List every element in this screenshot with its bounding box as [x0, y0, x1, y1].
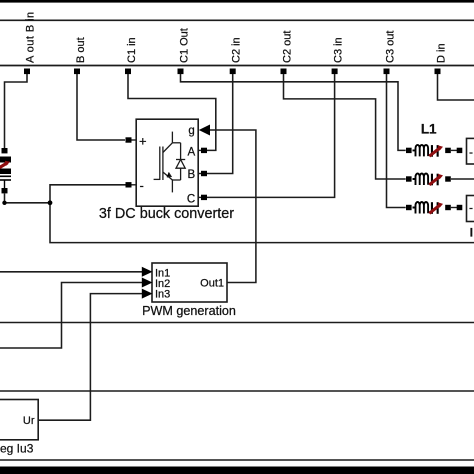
svg-text:Out1: Out1 [200, 278, 224, 290]
bottom black border bar [0, 467, 474, 474]
current measure red arrow row1 [429, 145, 443, 157]
coil row3 [413, 202, 431, 214]
wire long bus line 2 [0, 322, 474, 324]
svg-text:B out: B out [75, 37, 87, 63]
svg-text:C: C [187, 194, 195, 206]
svg-text:-: - [469, 145, 473, 159]
svg-text:PWM generation: PWM generation [142, 304, 236, 318]
svg-text:g: g [188, 125, 194, 137]
wire capacitor branch bottom to junction [5, 194, 51, 203]
coil row2 [413, 174, 431, 186]
block 3f DC buck converter U1 [99, 119, 234, 222]
svg-text:C1 Out: C1 Out [179, 28, 191, 63]
wire In1 from left edge [0, 271, 144, 273]
port square row1 left [406, 148, 412, 153]
port square C2 in [230, 69, 236, 75]
port square C1 in [125, 69, 131, 75]
port square row3 right [457, 205, 463, 210]
diode D1 [176, 143, 185, 180]
In2 arrowhead [142, 278, 153, 288]
inductor L1 row 3 [406, 196, 474, 240]
wire In2 from left edge [0, 283, 144, 349]
svg-text:C3 out: C3 out [385, 31, 397, 63]
port square row2 mid [445, 176, 451, 181]
port square branch bottom [2, 188, 8, 193]
IGBT symbol Q1 [154, 132, 181, 193]
current measure red arrow row2 [429, 174, 443, 186]
capacitor plates [0, 175, 11, 177]
port square C3 out [384, 69, 390, 75]
red measurement arrow [0, 163, 8, 169]
stub B port [198, 173, 201, 175]
wire long bus line 3 [0, 390, 474, 392]
port square row3 left [406, 205, 412, 210]
bottom horizontal line [0, 459, 474, 461]
wire C1 in to A port of buck converter [128, 74, 216, 150]
svg-text:B: B [188, 169, 196, 181]
port square A out B in [24, 69, 30, 75]
port square branch top [2, 148, 8, 153]
wire C1 Out to L1 row 1 [181, 74, 406, 150]
coil row1 [413, 145, 431, 157]
svg-text:In3: In3 [155, 289, 170, 301]
port square C [201, 195, 207, 200]
svg-text:C3 in: C3 in [333, 37, 345, 63]
port square C1 Out [178, 69, 184, 75]
In1 arrowhead [142, 267, 153, 277]
svg-text:A out B in: A out B in [25, 11, 37, 63]
current measure red arrow row3 [429, 202, 443, 214]
meter block row1 [467, 138, 474, 164]
port square minus [126, 182, 132, 187]
port square row1 mid [445, 148, 451, 153]
svg-text:+: + [139, 134, 147, 149]
wire In3 from Ur block [38, 294, 144, 421]
g input arrowhead [199, 125, 210, 136]
port square row1 right [457, 148, 463, 153]
svg-text:Ur: Ur [23, 415, 35, 427]
port squares under top bus [24, 69, 441, 75]
wire C3 out to L1 row 3 [387, 74, 406, 208]
port square C3 in [332, 69, 338, 75]
port square plus [126, 137, 132, 142]
wire row1 to meter [451, 149, 457, 151]
port square B out [74, 69, 80, 75]
port square B [201, 171, 207, 176]
wire top bus upper line [0, 19, 474, 21]
port square A [201, 148, 207, 153]
svg-text:C2 out: C2 out [282, 31, 294, 63]
port square row3 mid [445, 205, 451, 210]
inductor L1 row 1 [406, 138, 474, 164]
svg-text:-: - [469, 201, 473, 215]
block Ur regulator [0, 400, 38, 456]
svg-text:-: - [140, 178, 144, 193]
stub C port [198, 196, 201, 198]
In3 arrowhead [142, 289, 153, 299]
inductor L1 row 2 [406, 174, 451, 186]
wire D in to right edge [438, 74, 474, 100]
svg-text:eg Iu3: eg Iu3 [0, 442, 34, 456]
junction at minus bus and capacitor branch [48, 200, 53, 205]
stub minus port [132, 184, 137, 186]
svg-text:I: I [470, 227, 473, 239]
svg-text:D in: D in [436, 43, 448, 63]
svg-text:C2 in: C2 in [231, 37, 243, 63]
stub plus port [132, 139, 137, 141]
wire row3 to meter [451, 207, 457, 209]
rotated port name labels on top bus [25, 11, 448, 63]
capacitor RLC branch at left edge [0, 148, 11, 193]
stub A port [198, 149, 201, 151]
port square row2 left [406, 176, 412, 181]
wire A out B in to capacitor branch [5, 74, 28, 148]
port square C2 out [281, 69, 287, 75]
svg-text:A: A [188, 147, 196, 159]
wire L1 row 2 output to right edge [451, 178, 474, 180]
wire Out1 of PWM to g port [210, 130, 256, 283]
svg-text:3f DC buck converter: 3f DC buck converter [99, 206, 234, 222]
wire B out to + port of buck converter [77, 74, 125, 140]
svg-text:L1: L1 [421, 122, 437, 137]
wire top bus lower line [0, 65, 474, 67]
top black border bar [0, 0, 474, 3]
meter block row3 [467, 196, 474, 222]
wire C2 in to B port of buck converter [207, 74, 233, 174]
junction at capacitor branch corner [2, 201, 6, 205]
block PWM generation U2 [142, 263, 236, 318]
port square D in [435, 69, 441, 75]
wire C3 in to C port of buck converter [207, 74, 335, 197]
svg-text:C1 in: C1 in [126, 37, 138, 63]
wire minus port down to long bus [50, 185, 474, 243]
resistor body bars [0, 157, 11, 163]
wire C2 out to L1 row 2 [284, 74, 406, 179]
